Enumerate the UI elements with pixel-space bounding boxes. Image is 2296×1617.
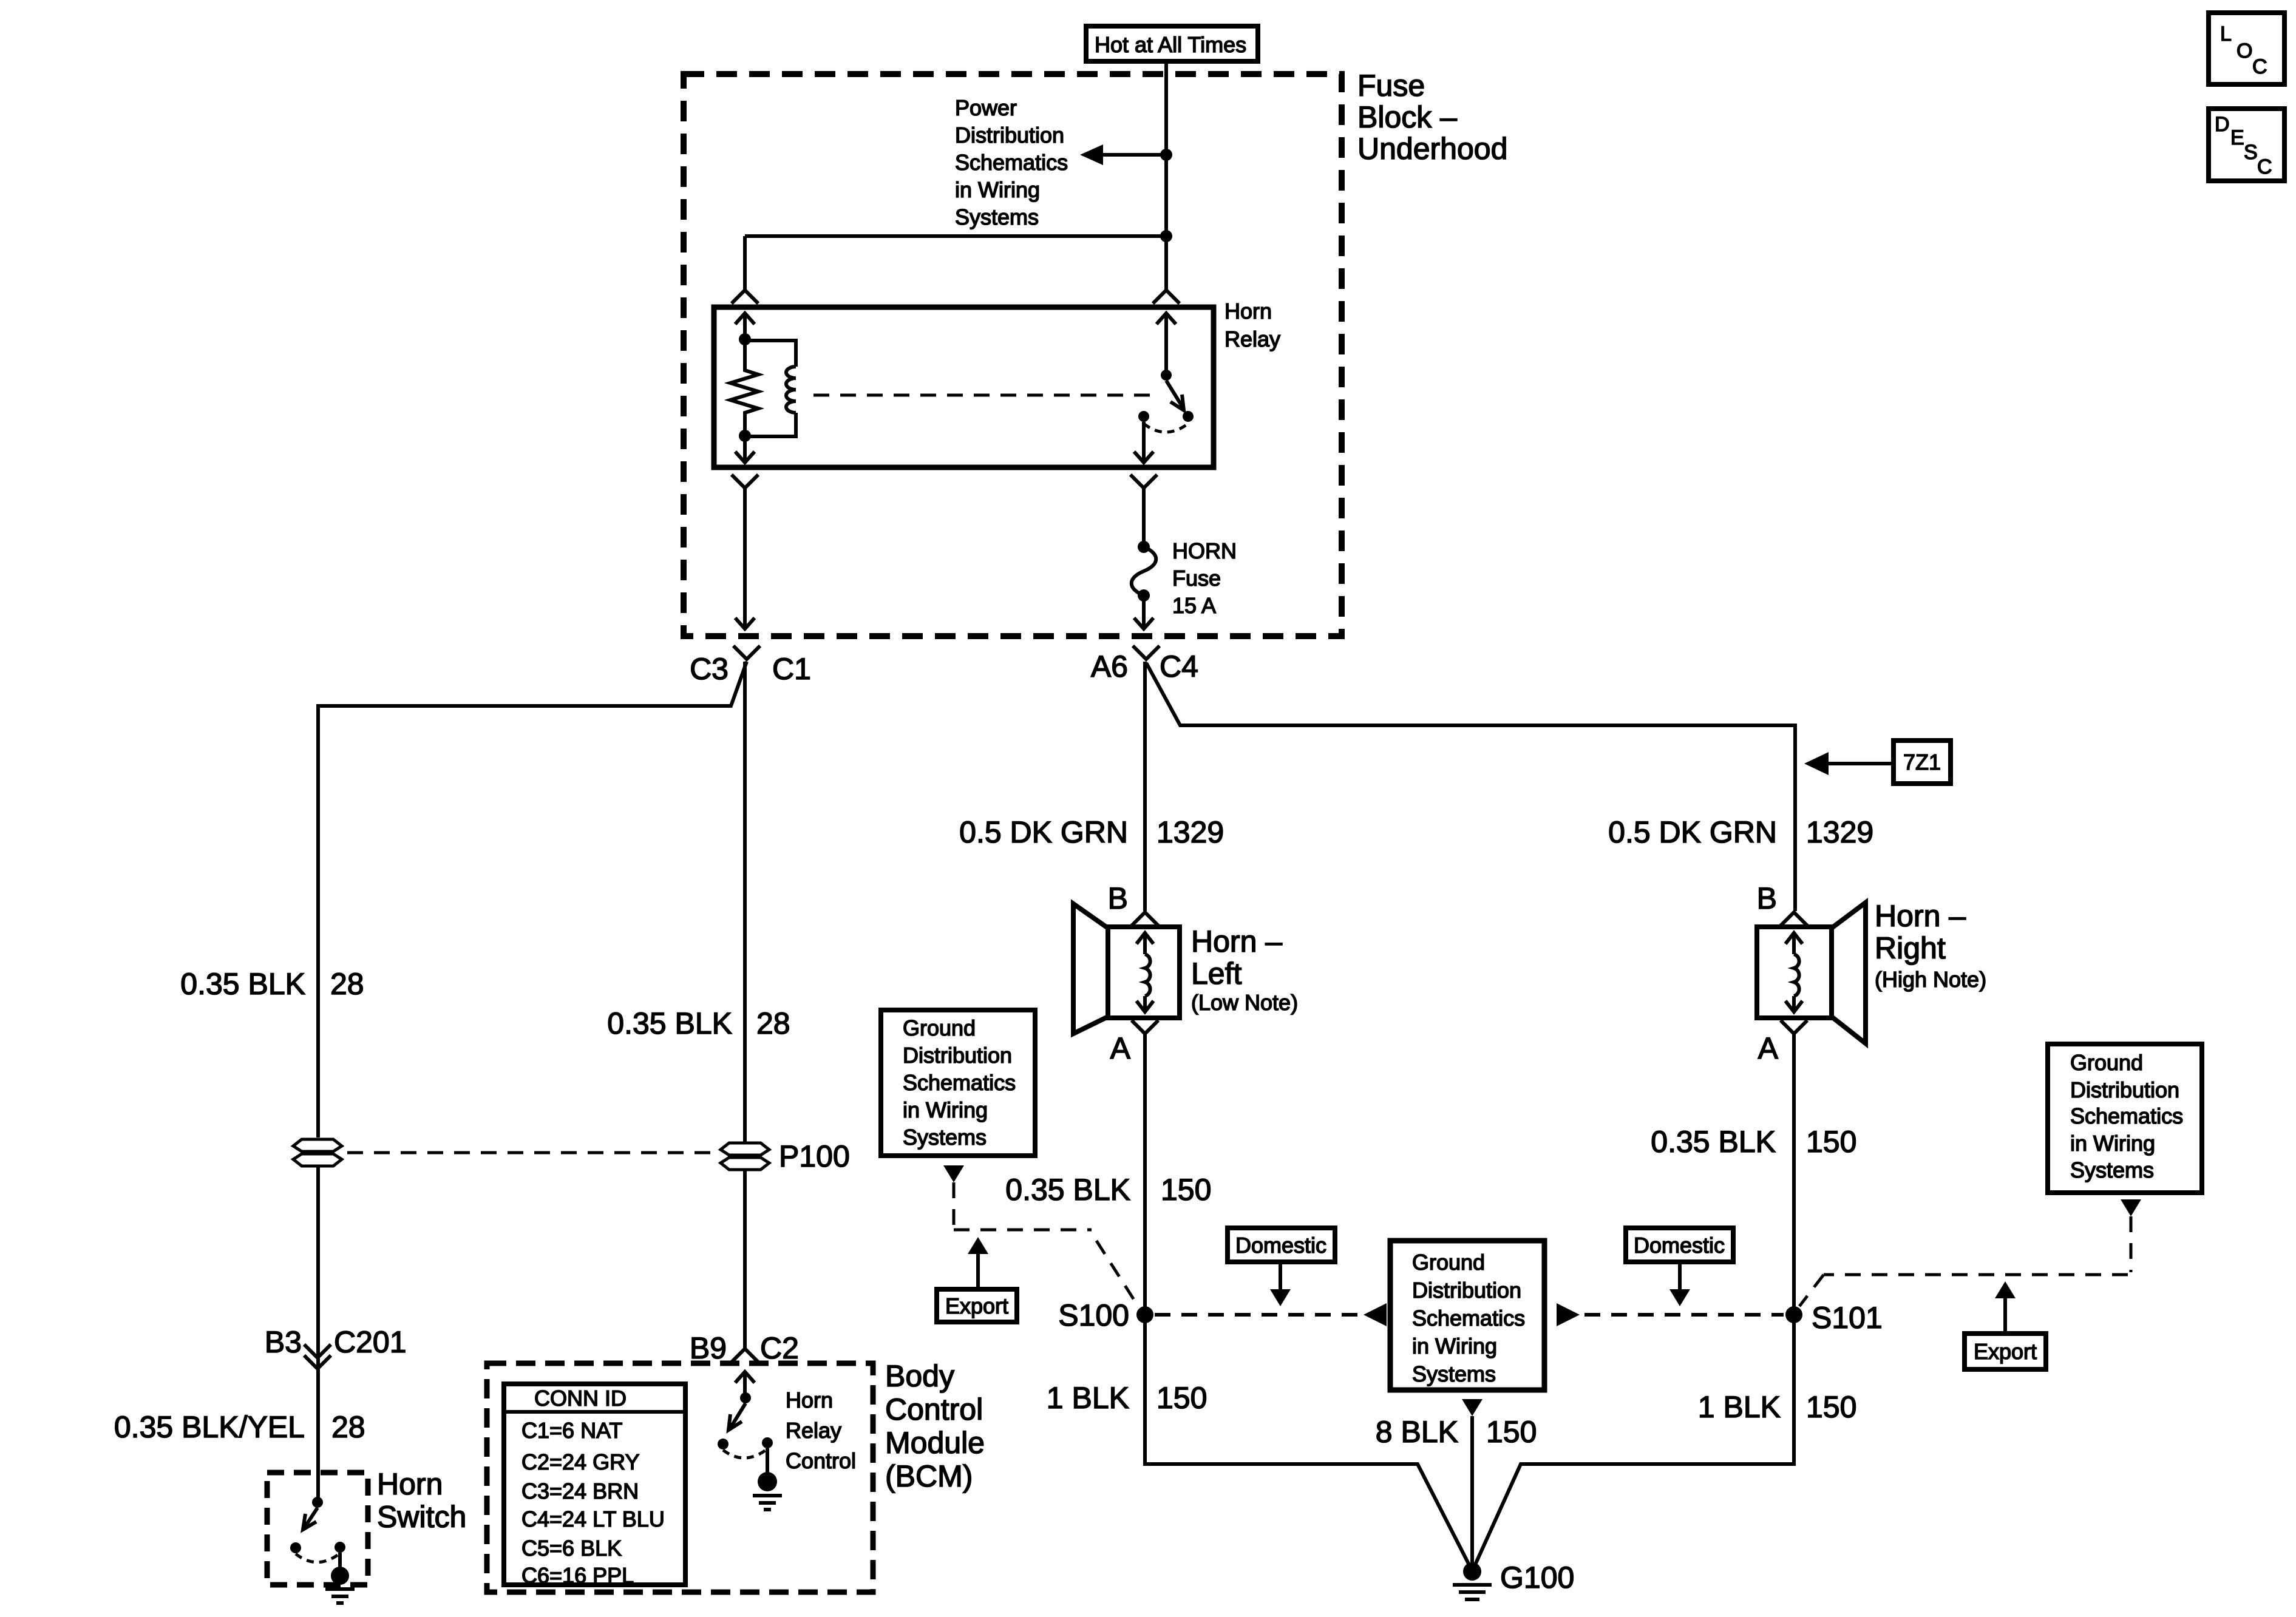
arrowhead out of center box toward S101 [1557,1303,1580,1326]
arrow from Domestic (right) down to dashed net [1669,1262,1690,1306]
triangle under left ground box [943,1165,964,1182]
pin B chevron of Horn Left [1132,912,1158,926]
svg-text:0.35 BLK: 0.35 BLK [607,1006,732,1040]
svg-text:0.35 BLK/YEL: 0.35 BLK/YEL [114,1410,305,1444]
ground inside BCM [753,1472,782,1510]
svg-text:C6=16 PPL: C6=16 PPL [521,1563,634,1588]
node: BCM left contact [718,1439,729,1449]
svg-text:Distribution: Distribution [903,1043,1012,1068]
svg-text:C2: C2 [760,1331,799,1365]
svg-text:C3=24 BRN: C3=24 BRN [521,1479,639,1503]
svg-text:B: B [1757,881,1777,915]
svg-text:Fuse: Fuse [1357,69,1425,103]
triangle under right ground box [2121,1199,2141,1216]
pin A chevron of Horn Left [1132,1020,1158,1034]
switch arm of horn switch [303,1508,318,1530]
svg-text:Module: Module [885,1426,985,1460]
dashed pass-through link to P100 [347,1151,716,1154]
svg-text:Export: Export [945,1293,1008,1318]
wire: S100 leg to ground funnel [1145,1315,1470,1567]
svg-text:O: O [2237,39,2252,63]
node: junction to relay coil feed [1160,230,1172,242]
node: relay moving contact [1183,411,1194,422]
BCM dashed box (Body Control Module) [487,1363,873,1592]
wire: relay output leaving with down arrow [1134,422,1153,463]
label Horn - Left (Low Note) [1191,924,1298,1015]
svg-text:0.35 BLK: 0.35 BLK [1005,1173,1130,1207]
horn switch dashed box [267,1473,368,1585]
label HORN Fuse 15 A [1172,538,1237,618]
svg-text:L: L [2220,22,2232,46]
svg-text:1 BLK: 1 BLK [1047,1381,1129,1415]
svg-text:A6: A6 [1091,649,1128,683]
CONN ID table [504,1384,685,1588]
inline connector lens P100 on center wire [721,1143,769,1170]
pin: switch terminal chevron above relay [1153,290,1180,303]
svg-text:Distribution: Distribution [2070,1077,2179,1102]
svg-text:Switch: Switch [377,1500,466,1534]
connector B9/C2 chevron [732,1349,758,1362]
triangle under center ground box [1462,1399,1483,1416]
svg-text:Distribution: Distribution [955,123,1064,147]
7Z1 reference box [1894,741,1951,784]
svg-text:in Wiring: in Wiring [1412,1334,1497,1358]
connector A6/C4 chevron [1133,646,1160,659]
wire: right contact to ground [338,1553,342,1567]
wire: fuse output down to connector A6/C4 [1134,595,1153,629]
svg-text:B3: B3 [265,1325,302,1359]
svg-text:(High Note): (High Note) [1875,967,1986,992]
svg-text:C5=6 BLK: C5=6 BLK [521,1536,622,1561]
svg-text:C: C [2257,155,2272,178]
svg-text:C2=24 GRY: C2=24 GRY [521,1449,639,1474]
svg-text:in Wiring: in Wiring [903,1097,988,1122]
svg-text:G100: G100 [1500,1561,1574,1595]
horn relay box U (Horn Relay) [714,307,1214,467]
ground distribution box (left) [881,1010,1035,1156]
svg-text:0.5 DK GRN: 0.5 DK GRN [1608,815,1777,849]
dashed contact arc of horn switch [296,1553,340,1562]
horn left coil with arrows [1136,933,1153,1012]
svg-text:Export: Export [1974,1339,2037,1364]
svg-text:Power: Power [955,95,1017,120]
label Horn - Right (High Note) [1875,899,1986,992]
svg-text:CONN ID: CONN ID [534,1386,627,1411]
svg-text:C4: C4 [1160,649,1198,683]
horn left speaker box [1108,927,1180,1018]
dashed net from S100 toward center reference box [1155,1313,1359,1317]
node: relay coil bottom [739,430,751,442]
Export box (left) [937,1289,1017,1322]
svg-text:1329: 1329 [1156,815,1224,849]
svg-text:Domestic: Domestic [1235,1233,1326,1258]
svg-text:Horn: Horn [377,1467,443,1501]
svg-text:(Low Note): (Low Note) [1191,990,1298,1015]
wire: center wire continues below P100 to BCM [743,1170,747,1349]
arrowhead into S100 side of center box [1364,1303,1387,1326]
svg-text:Hot at All Times: Hot at All Times [1095,32,1246,57]
horn right cone [1832,903,1866,1043]
node: horn switch left contact [290,1542,301,1553]
svg-text:Horn: Horn [786,1388,833,1412]
arrow from Domestic (left) down to dashed net [1270,1262,1291,1306]
svg-text:Control: Control [885,1392,983,1426]
label Horn Switch [377,1467,466,1534]
svg-text:Schematics: Schematics [903,1070,1016,1095]
horn right speaker box [1757,927,1832,1018]
wire: Horn Left A down to S100 [1143,1034,1147,1464]
svg-text:Distribution: Distribution [1412,1278,1521,1303]
svg-text:28: 28 [331,1410,365,1444]
svg-text:Systems: Systems [2070,1158,2154,1182]
node: relay output contact [1138,411,1149,422]
wire: C1 branch straight down toward P100 [743,662,747,1142]
wire: relay output down to HORN fuse [1142,488,1146,543]
label Horn Relay Control [786,1388,856,1473]
svg-text:Schematics: Schematics [955,150,1068,175]
svg-text:A: A [1110,1031,1131,1065]
svg-text:B: B [1108,881,1128,915]
label Fuse Block - Underhood [1357,69,1507,166]
wire: branch to Horn Right [1146,663,1795,911]
svg-text:0.5 DK GRN: 0.5 DK GRN [959,815,1128,849]
svg-text:8 BLK: 8 BLK [1376,1415,1458,1449]
node: horn switch right contact [335,1542,345,1553]
svg-text:in Wiring: in Wiring [2070,1131,2155,1156]
svg-text:Systems: Systems [903,1125,987,1150]
svg-text:Schematics: Schematics [2070,1103,2183,1128]
node: relay switch pivot [1161,370,1172,381]
svg-text:(BCM): (BCM) [885,1459,973,1493]
inductor: relay coil winding [745,341,796,367]
svg-text:Right: Right [1875,931,1946,965]
wire: horn relay control entering BCM with up arrow [735,1372,755,1393]
svg-text:A: A [1758,1031,1779,1065]
pin: coil ground terminal chevron below relay [732,475,758,488]
svg-text:C: C [2252,55,2267,78]
svg-text:Domestic: Domestic [1634,1233,1725,1258]
svg-text:C4=24 LT BLU: C4=24 LT BLU [521,1507,665,1531]
Domestic box (right) [1626,1228,1733,1262]
label Body Control Module (BCM) [885,1359,985,1493]
svg-text:0.35 BLK: 0.35 BLK [180,967,305,1001]
wire: coil ground-side leaving relay with down arrow [735,436,755,463]
svg-text:S: S [2244,141,2258,164]
pin: coil terminal chevron above relay [732,290,758,303]
svg-text:150: 150 [1806,1390,1856,1424]
dashed contact arc of relay switch [1144,424,1188,432]
wire: horizontal feed to relay coil side [745,234,1166,238]
svg-text:28: 28 [756,1006,790,1040]
switch arm of BCM horn relay control driver [729,1403,746,1430]
arrow from 7Z1 to wire [1804,752,1894,775]
svg-text:C1: C1 [772,652,811,686]
svg-text:C201: C201 [334,1325,407,1359]
svg-text:150: 150 [1486,1415,1537,1449]
dashed path from left ground box to S100 [954,1182,1139,1307]
wire: BCM right contact to ground [766,1448,769,1473]
wire: S101 leg to ground funnel [1474,1315,1794,1567]
horn left cone [1073,904,1108,1034]
svg-text:Horn –: Horn – [1875,899,1966,933]
svg-text:Schematics: Schematics [1412,1306,1525,1331]
connector C3/C1 chevron [733,646,760,659]
pin A chevron of Horn Right [1781,1020,1807,1034]
svg-text:0.35 BLK: 0.35 BLK [1651,1125,1776,1159]
svg-text:Underhood: Underhood [1357,132,1507,166]
wire: left wire continues below lens [316,1167,320,1498]
wire: arrow to Power Distribution Schematics reference [1080,144,1166,165]
wire: A6/C4 down to Horn Left B [1143,662,1147,911]
fuse block dashed box (Fuse Block - Underhood) [684,74,1342,636]
svg-text:C3: C3 [690,652,729,686]
arrow from Export (left) to dashed path [968,1237,988,1288]
dashed net from center box to S101 [1584,1313,1784,1317]
svg-text:Horn: Horn [1224,299,1272,324]
svg-text:Ground: Ground [2070,1050,2143,1075]
svg-text:1329: 1329 [1806,815,1873,849]
svg-text:S101: S101 [1812,1301,1883,1335]
horn right coil with arrows [1785,933,1802,1012]
node: BCM switch top [740,1392,751,1403]
Export box (right) [1965,1334,2046,1369]
wire: coil-side drop [743,236,747,290]
svg-text:Left: Left [1191,957,1242,991]
svg-text:1 BLK: 1 BLK [1698,1390,1781,1424]
inline connector lens on left wire [293,1139,342,1166]
fuse F (HORN Fuse 15 A) [1132,541,1156,602]
wire: Horn Right A down to S101 [1792,1034,1796,1464]
svg-text:150: 150 [1806,1125,1856,1159]
svg-text:Systems: Systems [1412,1361,1496,1386]
Domestic box (left) [1228,1228,1335,1262]
svg-text:C1=6 NAT: C1=6 NAT [521,1418,622,1443]
svg-text:Relay: Relay [786,1418,841,1443]
svg-text:D: D [2215,113,2230,136]
node: BCM right contact [762,1437,773,1448]
ground at horn switch [325,1567,355,1603]
svg-text:Block –: Block – [1357,100,1457,134]
label Power Distribution Schematics in Wiring Systems [955,95,1068,229]
pin: relay output terminal chevron below relay [1130,475,1157,488]
label Horn Relay [1224,299,1280,351]
wire: relay coil ground wire down to connector C3/C1 [735,488,755,629]
svg-text:15 A: 15 A [1172,593,1216,618]
ground distribution box (center) [1390,1241,1544,1390]
svg-text:28: 28 [330,967,364,1001]
svg-text:Systems: Systems [955,205,1039,229]
svg-text:Body: Body [885,1359,954,1393]
arrow from Export (right) to dashed path [1995,1281,2016,1332]
node: horn switch input [312,1497,323,1508]
svg-text:Horn –: Horn – [1191,924,1282,958]
node: junction to Power Distribution arrow [1160,149,1172,161]
svg-text:150: 150 [1156,1381,1207,1415]
node S100 [1136,1306,1153,1323]
svg-text:HORN: HORN [1172,538,1237,563]
svg-text:Fuse: Fuse [1172,566,1221,591]
svg-text:Relay: Relay [1224,327,1280,351]
svg-text:E: E [2230,126,2244,149]
Hot at All Times box [1086,26,1258,61]
wire: battery feed from Hot at All Times down into fuse block [1164,61,1168,290]
relay linkage (dashed) [813,394,1153,397]
switch arm of relay with arrowhead [1166,381,1184,410]
resistor: relay coil suppression resistor [730,345,758,436]
wire: coil terminal entering relay with up arrow [735,313,755,334]
svg-text:B9: B9 [690,1331,727,1365]
dashed contact arc of BCM driver [723,1449,767,1458]
DESC reference box [2209,109,2284,181]
wire: relay switch common entering with up arrow [1156,313,1176,375]
LOC reference box [2209,13,2284,84]
svg-text:S100: S100 [1058,1298,1129,1332]
pin B chevron of Horn Right [1781,912,1807,926]
svg-text:Ground: Ground [1412,1250,1485,1275]
dashed path from right ground box to S101 [1799,1216,2131,1306]
svg-text:Ground: Ground [903,1015,976,1040]
ground distribution box (right) [2048,1044,2202,1193]
wire: center ground lead down to G100 [1470,1416,1474,1566]
wire: C3 branch diagonal and run to left side [318,662,747,1137]
svg-text:Control: Control [786,1448,856,1473]
connector B3/C201 double chevron [304,1344,331,1369]
svg-text:7Z1: 7Z1 [1903,750,1941,775]
node S101 [1785,1306,1802,1323]
node: relay coil top [739,333,751,345]
svg-text:in Wiring: in Wiring [955,177,1040,202]
svg-text:P100: P100 [779,1139,850,1173]
svg-text:150: 150 [1161,1173,1211,1207]
ground G100 [1453,1562,1492,1599]
